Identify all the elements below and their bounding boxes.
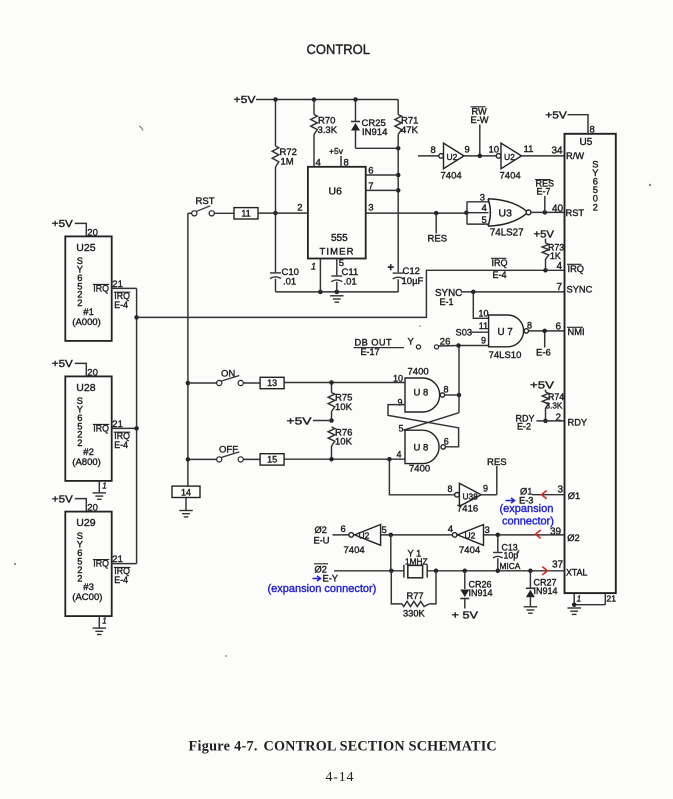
svg-text:5: 5 xyxy=(399,423,404,433)
svg-text:RST: RST xyxy=(196,196,215,207)
svg-text:10K: 10K xyxy=(335,402,353,413)
svg-text:11: 11 xyxy=(479,321,488,331)
svg-text:4: 4 xyxy=(448,524,453,535)
svg-text:(expansion: (expansion xyxy=(500,503,554,515)
svg-text:U5: U5 xyxy=(580,137,593,148)
svg-text:3: 3 xyxy=(368,202,373,213)
svg-text:Ø1: Ø1 xyxy=(568,491,580,501)
svg-text:U2: U2 xyxy=(465,531,476,541)
svg-text:5: 5 xyxy=(482,215,487,226)
svg-text:U3: U3 xyxy=(499,208,513,220)
svg-text:21: 21 xyxy=(607,593,617,603)
svg-text:9: 9 xyxy=(398,397,403,407)
svg-text:NMI: NMI xyxy=(568,327,585,337)
svg-text:.01: .01 xyxy=(283,277,296,288)
svg-text:IN914: IN914 xyxy=(469,588,493,598)
svg-text:2: 2 xyxy=(77,573,82,583)
svg-text:7404: 7404 xyxy=(344,545,365,556)
svg-text:RES: RES xyxy=(428,233,448,244)
svg-text:10µF: 10µF xyxy=(402,276,424,287)
svg-text:1: 1 xyxy=(102,481,106,490)
svg-text:E-6: E-6 xyxy=(536,348,551,359)
svg-text:(expansion connector): (expansion connector) xyxy=(268,583,377,595)
svg-text:SYNC: SYNC xyxy=(567,284,593,294)
svg-text:E-4: E-4 xyxy=(114,440,128,450)
svg-text:5: 5 xyxy=(382,525,387,536)
svg-text:E-4: E-4 xyxy=(493,270,507,280)
svg-text:RDY: RDY xyxy=(568,418,588,428)
svg-text:U2: U2 xyxy=(447,152,458,162)
svg-text:E-4: E-4 xyxy=(114,300,128,310)
svg-text:3.3K: 3.3K xyxy=(318,125,338,136)
svg-text:U38: U38 xyxy=(463,491,479,501)
svg-text:2: 2 xyxy=(77,298,82,308)
svg-text:TIMER: TIMER xyxy=(320,247,355,258)
svg-text:2: 2 xyxy=(77,438,82,448)
svg-text:6: 6 xyxy=(444,436,449,446)
svg-text:1: 1 xyxy=(577,593,582,603)
svg-text:7404: 7404 xyxy=(441,170,462,181)
svg-text:Figure 4-7.: Figure 4-7. xyxy=(189,739,258,755)
svg-text:E-17: E-17 xyxy=(361,347,380,357)
svg-text:U28: U28 xyxy=(76,382,95,394)
svg-text:6: 6 xyxy=(556,321,562,332)
svg-text:15: 15 xyxy=(267,455,277,465)
svg-text:4-14: 4-14 xyxy=(326,770,355,785)
svg-text:7404: 7404 xyxy=(459,545,480,556)
svg-text:9: 9 xyxy=(483,483,488,493)
svg-text:R77: R77 xyxy=(407,591,424,601)
svg-text:+5V: +5V xyxy=(52,494,73,505)
svg-text:RST: RST xyxy=(566,208,585,218)
svg-text:U2: U2 xyxy=(504,152,515,162)
svg-text:RES: RES xyxy=(487,457,507,468)
svg-text:E-U: E-U xyxy=(314,535,330,545)
svg-text:E-W: E-W xyxy=(471,115,489,125)
svg-text:3.3K: 3.3K xyxy=(546,402,563,411)
svg-text:34: 34 xyxy=(552,146,564,157)
svg-text:(A800): (A800) xyxy=(72,457,101,468)
svg-text:MICA: MICA xyxy=(500,561,521,571)
svg-text:8: 8 xyxy=(590,124,595,135)
svg-text:U 7: U 7 xyxy=(498,327,513,338)
svg-text:74LS10: 74LS10 xyxy=(489,350,522,361)
svg-text:10: 10 xyxy=(393,373,403,383)
svg-text:7416: 7416 xyxy=(457,504,478,515)
svg-text:4: 4 xyxy=(397,449,402,459)
svg-text:11: 11 xyxy=(241,208,250,218)
svg-text:CONTROL SECTION SCHEMATIC: CONTROL SECTION SCHEMATIC xyxy=(264,739,497,755)
svg-text:11: 11 xyxy=(524,144,534,155)
svg-text:E-7: E-7 xyxy=(537,186,551,196)
svg-text:+ 5V: + 5V xyxy=(452,610,479,621)
svg-text:DB OUT: DB OUT xyxy=(355,337,393,347)
svg-text:37: 37 xyxy=(552,559,564,570)
svg-text:1: 1 xyxy=(102,617,106,626)
svg-text:4: 4 xyxy=(316,157,321,168)
svg-text:7400: 7400 xyxy=(408,366,429,377)
svg-text:XTAL: XTAL xyxy=(566,567,587,577)
svg-text:13: 13 xyxy=(267,378,277,388)
svg-text:Y: Y xyxy=(408,337,415,348)
svg-text:+5V: +5V xyxy=(52,359,73,370)
svg-text:7: 7 xyxy=(557,282,563,293)
svg-text:.01: .01 xyxy=(344,277,357,288)
svg-text:U25: U25 xyxy=(76,242,95,254)
svg-text:Ø2: Ø2 xyxy=(315,525,327,535)
svg-text:3: 3 xyxy=(480,193,485,204)
svg-text:1M: 1M xyxy=(281,157,294,168)
svg-text:7400: 7400 xyxy=(409,463,430,474)
svg-text:IRQ: IRQ xyxy=(492,258,508,268)
svg-text:14: 14 xyxy=(181,487,191,497)
svg-text:40: 40 xyxy=(552,204,564,215)
svg-text:555: 555 xyxy=(331,233,348,244)
svg-text:8: 8 xyxy=(527,321,532,331)
svg-text:+5v: +5v xyxy=(329,146,344,156)
svg-text:(A000): (A000) xyxy=(72,317,101,328)
svg-text:IN914: IN914 xyxy=(534,586,558,596)
svg-text:2: 2 xyxy=(593,202,598,212)
svg-text:U2: U2 xyxy=(359,531,370,541)
svg-text:E-Y: E-Y xyxy=(323,573,339,583)
svg-text:IRQ: IRQ xyxy=(568,264,585,274)
svg-text:9: 9 xyxy=(481,336,486,346)
svg-text:+5V: +5V xyxy=(545,110,567,121)
svg-text:E-4: E-4 xyxy=(114,575,128,585)
svg-text:+5V: +5V xyxy=(234,95,256,106)
svg-text:8: 8 xyxy=(448,484,453,494)
svg-text:IN914: IN914 xyxy=(362,127,387,138)
svg-text:E-2: E-2 xyxy=(517,422,531,432)
svg-text:1: 1 xyxy=(311,262,316,272)
svg-text:3: 3 xyxy=(485,525,490,536)
svg-text:+5V: +5V xyxy=(534,229,555,240)
svg-text:R74: R74 xyxy=(548,392,564,402)
svg-text:+5V: +5V xyxy=(52,219,73,230)
svg-text:330K: 330K xyxy=(403,608,426,618)
svg-text:E-1: E-1 xyxy=(440,297,454,307)
svg-text:6: 6 xyxy=(341,524,346,535)
svg-text:U29: U29 xyxy=(76,517,95,529)
svg-text:Ø2: Ø2 xyxy=(567,533,579,543)
svg-text:S03: S03 xyxy=(456,327,473,337)
svg-text:39: 39 xyxy=(550,527,562,538)
svg-text:10K: 10K xyxy=(335,437,353,448)
svg-text:1K: 1K xyxy=(550,251,561,261)
svg-text:7404: 7404 xyxy=(500,170,521,181)
svg-text:CONTROL: CONTROL xyxy=(307,42,371,58)
svg-text:2: 2 xyxy=(556,412,562,423)
svg-text:8: 8 xyxy=(431,145,436,156)
svg-text:9: 9 xyxy=(465,145,470,156)
svg-text:U 8: U 8 xyxy=(414,442,429,453)
svg-text:4: 4 xyxy=(482,203,487,214)
svg-text:connector): connector) xyxy=(502,516,554,528)
svg-text:10: 10 xyxy=(479,309,489,319)
svg-text:8: 8 xyxy=(444,384,449,394)
svg-text:R/W: R/W xyxy=(566,151,584,161)
svg-text:47K: 47K xyxy=(401,125,419,136)
svg-text:8: 8 xyxy=(344,157,349,168)
svg-text:74LS27: 74LS27 xyxy=(490,228,524,239)
svg-text:3: 3 xyxy=(558,485,564,496)
svg-text:+: + xyxy=(388,262,394,274)
svg-text:+5V: +5V xyxy=(287,416,312,427)
svg-text:U 8: U 8 xyxy=(414,387,429,398)
svg-text:4: 4 xyxy=(557,261,563,272)
svg-text:1MHZ: 1MHZ xyxy=(405,556,428,566)
svg-text:+5V: +5V xyxy=(530,380,554,391)
svg-text:2: 2 xyxy=(297,202,302,213)
svg-text:(AC00): (AC00) xyxy=(72,592,102,603)
svg-text:U6: U6 xyxy=(329,186,343,198)
